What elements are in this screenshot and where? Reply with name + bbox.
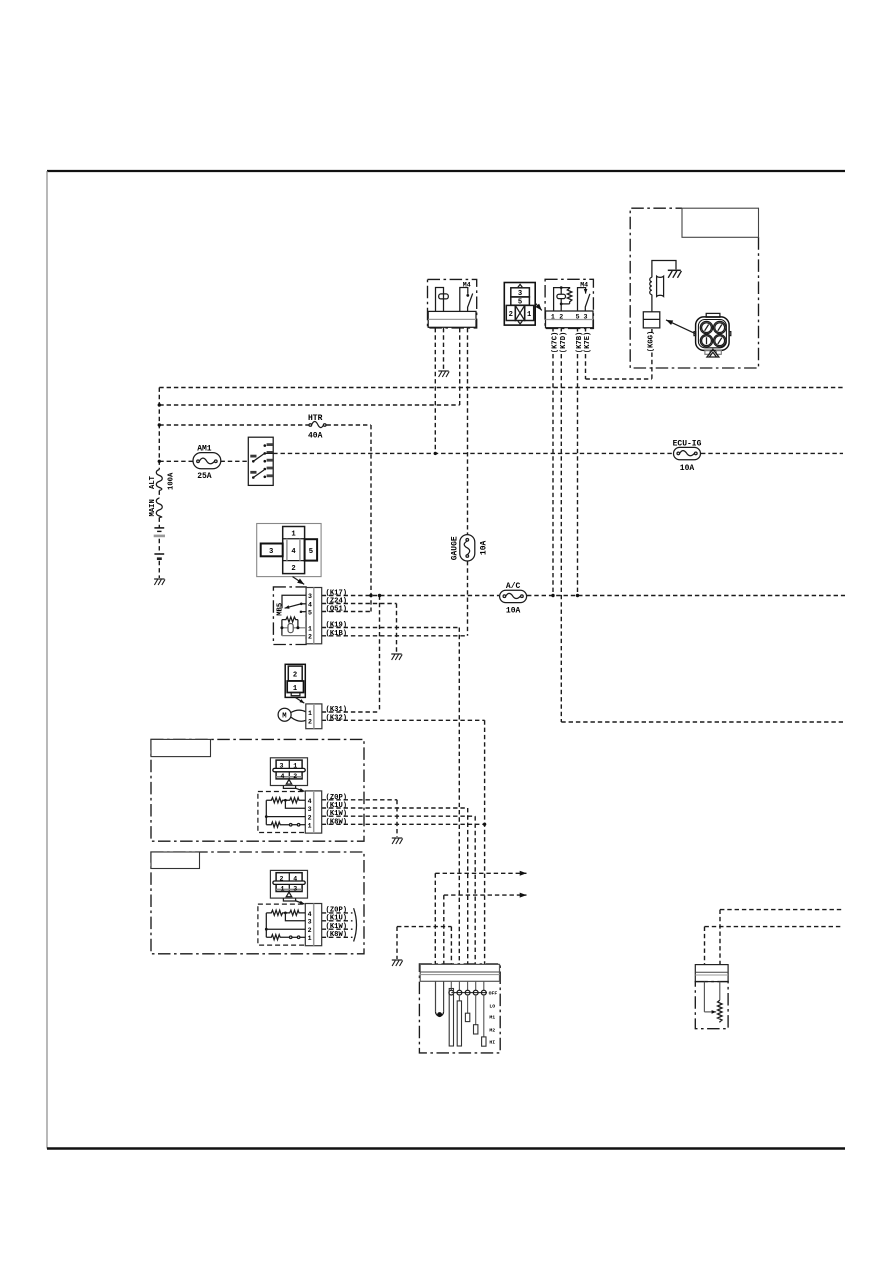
blower switch box	[419, 964, 500, 1053]
svg-text:1: 1	[308, 935, 312, 942]
wire: HTR feed y425	[159, 424, 371, 426]
svg-text:HI: HI	[489, 1039, 495, 1045]
fuse A/C 10A	[500, 582, 527, 615]
wire: blower switch ground link y926.6	[397, 926, 451, 928]
svg-text:(Z24): (Z24)	[326, 598, 348, 606]
wire: K19 drop x459.3	[458, 628, 460, 965]
wire: HTR drop x371	[370, 425, 372, 612]
wire labels blower 2	[326, 906, 357, 941]
svg-text:4: 4	[308, 601, 312, 608]
blower unit box 2	[151, 852, 364, 954]
svg-text:1: 1	[308, 625, 312, 632]
svg-text:4: 4	[281, 773, 285, 780]
wire labels MB5	[326, 590, 348, 723]
wire: K7D run y722 to page edge	[561, 721, 843, 723]
wire: K19 line y627.5	[322, 627, 460, 629]
relay U1 M4 (left)	[428, 279, 477, 328]
wire: K1W drop x475.2	[474, 816, 476, 964]
ground blower switch	[392, 960, 403, 966]
wire: K7D drop x561.3	[560, 328, 562, 722]
svg-text:5: 5	[576, 313, 580, 320]
noise filter / horn symbol inside box	[650, 261, 682, 312]
svg-text:(Q51): (Q51)	[326, 606, 348, 614]
relay U2 M4 (right)	[545, 279, 593, 353]
svg-text:2: 2	[293, 672, 297, 680]
fuse HTR 40A	[308, 414, 326, 440]
svg-text:4: 4	[308, 911, 312, 918]
wire: AM1 feed y461	[159, 460, 248, 462]
svg-text:3: 3	[518, 290, 522, 298]
wire: K32 line y720.3	[322, 719, 485, 721]
svg-text:1: 1	[527, 311, 532, 319]
wire: Z0P line y799.8	[322, 799, 397, 801]
wire: switch wiper drop x435.3	[434, 873, 436, 964]
wire: K17 / A-C line y595.5	[322, 595, 845, 597]
wire: rheostat feed y909.6	[720, 909, 843, 911]
blower connector 2 (4-pin)	[270, 870, 307, 904]
blower unit box 1	[151, 739, 364, 841]
wire: K31 riser x379.5	[379, 596, 381, 713]
svg-text:OFF: OFF	[489, 991, 498, 997]
svg-text:(K7C): (K7C)	[551, 332, 559, 354]
svg-text:(K32): (K32)	[326, 714, 348, 722]
wire: rheostat pin drop x704.5	[704, 927, 706, 965]
svg-text:2: 2	[280, 875, 284, 882]
wire: relay1 pin1 drop x435.3	[434, 328, 436, 453]
svg-text:1: 1	[293, 763, 297, 770]
junction dots	[158, 403, 580, 826]
svg-text:1: 1	[291, 531, 296, 539]
svg-text:(K7B): (K7B)	[576, 332, 584, 354]
blower resistor 2	[258, 904, 322, 946]
svg-text:(K31): (K31)	[326, 706, 348, 714]
wire: K32 drop x484.6	[484, 720, 486, 964]
wire: K7C drop x553	[552, 328, 554, 596]
connector KGG box	[643, 312, 695, 353]
svg-text:1: 1	[281, 886, 285, 893]
svg-text:M2: M2	[489, 1028, 495, 1034]
svg-text:10A: 10A	[506, 607, 521, 616]
fusible link MAIN	[149, 498, 162, 518]
svg-text:ECU-IG: ECU-IG	[673, 439, 702, 448]
svg-text:3: 3	[308, 806, 312, 813]
wire: K7B drop x577.5	[577, 328, 579, 596]
svg-text:A/C: A/C	[506, 582, 521, 591]
svg-text:2: 2	[509, 311, 513, 319]
wire: switch ground drop x397	[396, 927, 398, 959]
svg-text:(K8W): (K8W)	[326, 931, 348, 939]
svg-text:1: 1	[308, 710, 312, 717]
svg-text:GAUGE: GAUGE	[450, 536, 459, 560]
blower rheostat box	[695, 965, 728, 1029]
wire: K1B line y635.8	[322, 635, 468, 637]
svg-text:4: 4	[293, 875, 297, 882]
svg-text:1: 1	[293, 685, 298, 693]
wire: main bus y387 from left rail to page edge	[159, 387, 845, 389]
wire: K7E to KGG y379	[586, 378, 652, 380]
svg-text:(K1U): (K1U)	[326, 802, 348, 810]
svg-text:(K8W): (K8W)	[326, 818, 348, 826]
svg-text:3: 3	[293, 886, 297, 893]
wire: K1U line y808	[322, 807, 468, 809]
wire: Z24 line y603.5	[322, 603, 397, 605]
wire: relay1 pin2 ground drop x443.5	[443, 328, 445, 370]
ground Z0P	[392, 838, 403, 844]
wire: relay1 pin4 / GAUGE / K1B riser x467.5	[467, 328, 469, 636]
svg-text:ALT: ALT	[149, 475, 157, 489]
svg-text:LO: LO	[489, 1003, 495, 1009]
wire: rheostat feed y926.6	[705, 926, 844, 928]
svg-text:2: 2	[291, 565, 295, 573]
svg-text:(Z0P): (Z0P)	[326, 794, 348, 802]
svg-text:M: M	[282, 713, 286, 721]
svg-text:(K1W): (K1W)	[326, 810, 348, 818]
ground Z24	[391, 654, 402, 660]
wire: y405 rail to relay pin	[159, 404, 459, 406]
wire: rheostat pin drop x720	[719, 910, 721, 965]
ignition coil assembly box (dash-dot)	[630, 208, 758, 368]
wire: Q51 line y611.5	[322, 611, 371, 613]
wire: ECU-IG line y453	[273, 452, 843, 454]
svg-text:M1: M1	[489, 1015, 495, 1021]
wire: switch ground pin drop x451.4	[450, 927, 452, 965]
svg-text:HTR: HTR	[308, 414, 323, 423]
wire: K1W line y816.2	[322, 815, 476, 817]
battery	[154, 528, 165, 560]
wire: arrow line y873.3	[435, 872, 526, 874]
wire: left rail vertical x159	[158, 388, 160, 579]
svg-text:2: 2	[293, 773, 297, 780]
relay MB5	[273, 587, 321, 645]
fuse GAUGE 10A	[450, 535, 488, 561]
blower resistor 1	[258, 791, 322, 833]
svg-text:5: 5	[308, 610, 312, 617]
svg-text:(K1B): (K1B)	[326, 630, 348, 638]
wire: blower2 stub lines	[322, 913, 353, 937]
svg-text:40A: 40A	[308, 431, 323, 440]
svg-text:100A: 100A	[167, 472, 175, 490]
svg-text:(K17): (K17)	[326, 590, 348, 598]
svg-text:(Z0P): (Z0P)	[326, 906, 348, 914]
svg-text:1: 1	[551, 313, 555, 320]
svg-text:3: 3	[308, 593, 312, 600]
svg-text:5: 5	[518, 299, 522, 307]
svg-text:2: 2	[308, 814, 312, 821]
svg-text:5: 5	[309, 548, 313, 556]
wire: K1U drop x467.7	[467, 808, 469, 964]
blower switch contacts	[435, 981, 497, 1046]
svg-text:2: 2	[559, 313, 563, 320]
round 4-pin connector	[694, 313, 731, 357]
ignition switch	[248, 437, 273, 485]
svg-text:1: 1	[308, 822, 312, 829]
svg-text:3: 3	[280, 763, 284, 770]
svg-text:(KGG): (KGG)	[648, 331, 656, 353]
wire: K31 line y712	[322, 711, 380, 713]
fuse AM1 25A	[193, 445, 221, 482]
svg-text:(K1W): (K1W)	[326, 923, 348, 931]
svg-text:10A: 10A	[479, 540, 488, 555]
svg-text:4: 4	[308, 798, 312, 805]
wire: K8W line y824.3	[322, 823, 485, 825]
wire: KGG drop x651.9	[651, 329, 653, 379]
svg-text:2: 2	[308, 718, 312, 725]
blower motor M	[278, 704, 322, 729]
svg-text:AM1: AM1	[197, 445, 212, 454]
svg-text:(K1U): (K1U)	[326, 915, 348, 923]
svg-text:(K7E): (K7E)	[584, 332, 592, 354]
svg-text:10A: 10A	[680, 464, 695, 473]
blower motor connector (2-pin)	[285, 664, 305, 703]
connector block for relay U2	[504, 283, 542, 326]
wire: K7E drop x585.5	[585, 328, 587, 379]
wire: arrow line y895.1	[444, 894, 527, 896]
wire: relay1 pin3 drop x459.7	[459, 328, 461, 405]
wire: Z0P ground drop x397	[396, 800, 398, 837]
page border frame	[47, 170, 845, 172]
ignition key connector block	[257, 524, 321, 585]
ground battery	[154, 579, 165, 585]
wire: switch wiper drop x443.8	[443, 895, 445, 964]
fuse ECU-IG 10A	[673, 439, 702, 473]
svg-text:4: 4	[291, 548, 296, 556]
blower connector 1 (4-pin)	[270, 758, 307, 792]
svg-text:2: 2	[308, 634, 312, 641]
svg-text:25A: 25A	[197, 472, 212, 481]
fusible link ALT 100A	[149, 470, 176, 491]
svg-text:(K19): (K19)	[326, 622, 348, 630]
svg-text:3: 3	[269, 548, 273, 556]
wire labels blower 1	[326, 794, 348, 827]
wire: Z24 ground drop x396.5	[396, 604, 398, 654]
ground relay1 pin2	[438, 371, 449, 377]
svg-text:2: 2	[308, 927, 312, 934]
svg-text:MB5: MB5	[276, 603, 284, 616]
svg-text:(K7D): (K7D)	[560, 332, 568, 354]
svg-text:3: 3	[584, 313, 588, 320]
svg-text:MAIN: MAIN	[149, 499, 157, 516]
svg-text:3: 3	[308, 919, 312, 926]
